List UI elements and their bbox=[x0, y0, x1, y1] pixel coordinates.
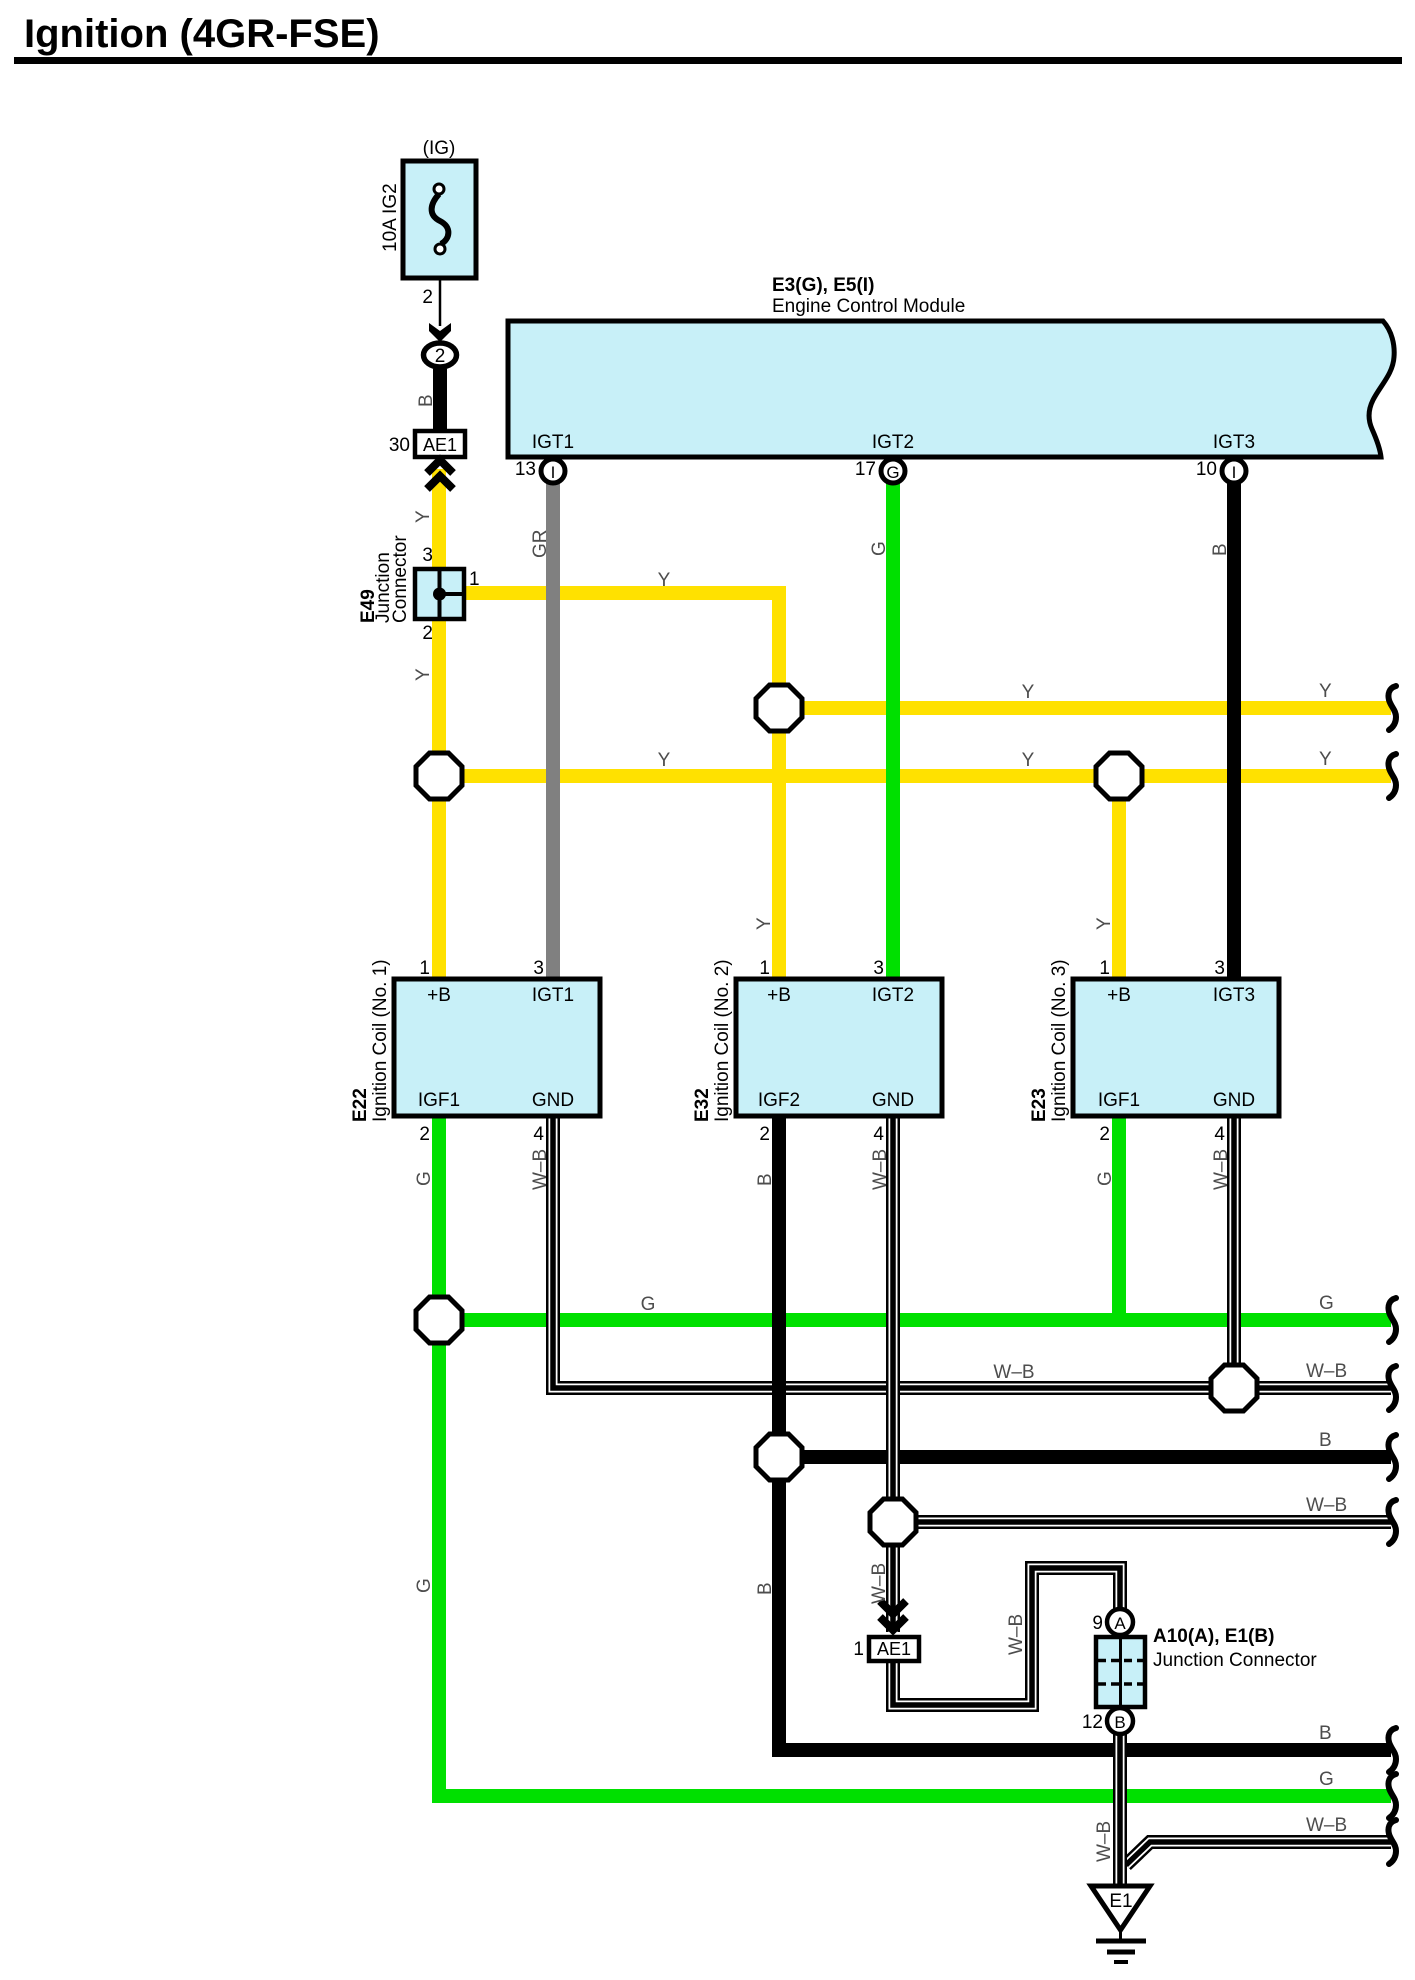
svg-text:Y: Y bbox=[413, 510, 434, 523]
svg-text:IGT2: IGT2 bbox=[872, 985, 914, 1006]
ignition coil E23 Ignition Coil (No. 3) bbox=[1073, 979, 1279, 1116]
svg-text:A10(A), E1(B): A10(A), E1(B) bbox=[1153, 1626, 1274, 1647]
wire: W-B from junction connector pin 12 B down to ground E1 bbox=[1113, 1732, 1127, 1888]
svg-text:GR: GR bbox=[530, 530, 551, 559]
svg-text:E1: E1 bbox=[1109, 1891, 1132, 1912]
svg-text:I: I bbox=[551, 463, 556, 482]
wire: B black from ECM IGT3 pin 10 down to coil No.3 IGT3 pin 3 bbox=[1227, 482, 1241, 985]
svg-text:9: 9 bbox=[1092, 1613, 1103, 1634]
connector arrow down bbox=[429, 323, 451, 342]
svg-text:Y: Y bbox=[754, 917, 775, 930]
svg-text:IGT1: IGT1 bbox=[532, 985, 574, 1006]
svg-text:12: 12 bbox=[1082, 1712, 1103, 1733]
ground E1 bbox=[1091, 1886, 1150, 1930]
svg-text:Y: Y bbox=[658, 750, 671, 771]
svg-text:A: A bbox=[1114, 1614, 1126, 1633]
wire: B black from oval to AE1 bbox=[433, 369, 447, 433]
inline connector oval 2 bbox=[424, 343, 457, 367]
junction connector A10(A), E1(B) pin 9 circle A bbox=[1107, 1609, 1133, 1635]
svg-text:Connector: Connector bbox=[390, 535, 411, 623]
wire: W-B from coil No.1 GND pin 4 down, corner, horizontal to right break bbox=[553, 1110, 1391, 1388]
svg-text:B: B bbox=[1319, 1723, 1332, 1744]
svg-text:B: B bbox=[755, 1173, 776, 1186]
svg-text:2: 2 bbox=[1099, 1124, 1110, 1145]
svg-text:Y: Y bbox=[413, 668, 434, 681]
svg-text:G: G bbox=[1319, 1293, 1334, 1314]
svg-text:2: 2 bbox=[759, 1124, 770, 1145]
svg-text:IGF1: IGF1 bbox=[418, 1090, 460, 1111]
wire: yellow Y vertical from octagon down to ignition coil No.3 +B pin 1 bbox=[1112, 776, 1126, 985]
ECM E3(G), E5(I) Engine Control Module box with torn right edge bbox=[508, 321, 1394, 457]
wire: W-B horizontal from octagon to right break bbox=[893, 1515, 1391, 1529]
svg-text:17: 17 bbox=[855, 459, 876, 480]
svg-text:IGF2: IGF2 bbox=[758, 1090, 800, 1111]
svg-text:IGT3: IGT3 bbox=[1213, 985, 1255, 1006]
junction octagon on Y wire 2 right bbox=[1096, 753, 1142, 799]
break symbol B row 2 bbox=[1388, 1728, 1396, 1772]
svg-text:3: 3 bbox=[533, 958, 544, 979]
svg-text:3: 3 bbox=[1214, 958, 1225, 979]
wire: W-B from coil No.2 GND pin 4 down to AE1 arrow bbox=[886, 1110, 900, 1632]
wire: W-B U-route from AE1 connector to junction connector pin 9 A bbox=[893, 1568, 1120, 1705]
svg-text:W–B: W–B bbox=[1306, 1815, 1347, 1836]
svg-text:W–B: W–B bbox=[1006, 1614, 1027, 1655]
svg-text:G: G bbox=[1095, 1171, 1116, 1186]
svg-text:W–B: W–B bbox=[530, 1149, 551, 1190]
svg-text:Junction Connector: Junction Connector bbox=[1153, 1650, 1317, 1671]
wire: G green from ECM IGT2 pin 17 down to coil No.2 IGT2 pin 3 bbox=[886, 482, 900, 985]
svg-text:Y: Y bbox=[658, 570, 671, 591]
break symbol Y wire 2 bbox=[1388, 754, 1396, 798]
svg-text:AE1: AE1 bbox=[423, 435, 457, 455]
svg-text:I: I bbox=[1232, 463, 1237, 482]
wire: G green from coil No.1 IGF1 pin 2 down, corner, bottom G horizontal to right break bbox=[439, 1110, 1391, 1796]
wire: GR gray from ECM IGT1 pin 13 down to coil No.1 IGT1 pin 3 bbox=[546, 482, 560, 985]
connector 30 AE1 box bbox=[415, 431, 465, 457]
svg-text:2: 2 bbox=[435, 346, 446, 367]
break symbol W-B row 1 bbox=[1388, 1366, 1396, 1410]
wire: W-B bottom horizontal from right break with diagonal merge into ground drop bbox=[1126, 1842, 1391, 1865]
svg-text:E23: E23 bbox=[1029, 1088, 1050, 1122]
svg-text:G: G bbox=[641, 1294, 656, 1315]
svg-text:2: 2 bbox=[422, 287, 433, 308]
wire: yellow Y horizontal (second) from left octagon to right break bbox=[439, 769, 1391, 783]
svg-text:Y: Y bbox=[1094, 917, 1115, 930]
wire: yellow Y vertical from AE1 chevron to ignition coil No.1 +B pin 1 bbox=[432, 469, 446, 985]
svg-text:B: B bbox=[1210, 543, 1231, 556]
junction connector E49 bbox=[415, 569, 464, 619]
svg-text:1: 1 bbox=[853, 1639, 864, 1660]
svg-text:W–B: W–B bbox=[1211, 1149, 1232, 1190]
svg-text:B: B bbox=[755, 1582, 776, 1595]
break symbol G bottom bbox=[1388, 1774, 1396, 1818]
svg-text:W–B: W–B bbox=[993, 1362, 1034, 1383]
svg-text:G: G bbox=[414, 1171, 435, 1186]
junction octagon on W-B wire row 2 bbox=[870, 1499, 916, 1545]
title underline bbox=[14, 57, 1402, 64]
junction octagon on G wire bbox=[416, 1297, 462, 1343]
svg-text:4: 4 bbox=[873, 1124, 884, 1145]
junction octagon on B wire bbox=[756, 1434, 802, 1480]
svg-text:10: 10 bbox=[1196, 459, 1217, 480]
svg-text:B: B bbox=[416, 394, 437, 407]
ignition coil E22 Ignition Coil (No. 1) bbox=[394, 979, 600, 1116]
break symbol W-B row 2 bbox=[1388, 1500, 1396, 1544]
svg-text:W–B: W–B bbox=[869, 1563, 890, 1604]
svg-text:W–B: W–B bbox=[1306, 1495, 1347, 1516]
junction connector A10(A), E1(B) body bbox=[1096, 1637, 1145, 1707]
svg-text:E22: E22 bbox=[350, 1088, 371, 1122]
break symbol Y wire 1 bbox=[1388, 686, 1396, 730]
svg-text:G: G bbox=[886, 463, 899, 482]
svg-text:2: 2 bbox=[422, 623, 433, 644]
svg-text:Y: Y bbox=[1319, 681, 1332, 702]
svg-text:Ignition Coil (No. 2): Ignition Coil (No. 2) bbox=[712, 959, 733, 1122]
svg-text:Y: Y bbox=[1022, 682, 1035, 703]
svg-text:30: 30 bbox=[389, 435, 410, 456]
svg-text:IGT1: IGT1 bbox=[532, 432, 574, 453]
wire: G green horizontal from octagon to right break bbox=[439, 1313, 1391, 1327]
junction connector pin 12 circle B bbox=[1107, 1708, 1133, 1734]
svg-text:AE1: AE1 bbox=[877, 1639, 911, 1659]
svg-text:IGT3: IGT3 bbox=[1213, 432, 1255, 453]
svg-text:GND: GND bbox=[1213, 1090, 1255, 1111]
wire: fuse pin 2 lead bbox=[439, 278, 442, 326]
ECM pin 10 circle I bbox=[1222, 459, 1246, 483]
svg-text:G: G bbox=[414, 1578, 435, 1593]
svg-text:Engine Control Module: Engine Control Module bbox=[772, 296, 965, 317]
ECM pin 13 circle I bbox=[541, 459, 565, 483]
svg-text:1: 1 bbox=[419, 958, 430, 979]
ignition coil E32 Ignition Coil (No. 2) bbox=[736, 979, 942, 1116]
svg-text:B: B bbox=[1114, 1713, 1125, 1732]
svg-text:IGT2: IGT2 bbox=[872, 432, 914, 453]
wire: B black from coil No.2 IGF2 pin 2 down, corner, bottom B horizontal to right break bbox=[779, 1110, 1391, 1750]
svg-text:4: 4 bbox=[533, 1124, 544, 1145]
svg-text:GND: GND bbox=[872, 1090, 914, 1111]
junction octagon on Y wire 1 bbox=[756, 685, 802, 731]
svg-text:2: 2 bbox=[419, 1124, 430, 1145]
break symbol B row 1 bbox=[1388, 1435, 1396, 1479]
junction octagon on Y wire 2 left bbox=[416, 753, 462, 799]
svg-text:G: G bbox=[869, 541, 890, 556]
svg-text:Ignition (4GR-FSE): Ignition (4GR-FSE) bbox=[24, 12, 380, 56]
svg-text:E32: E32 bbox=[692, 1088, 713, 1122]
svg-text:Y: Y bbox=[1022, 750, 1035, 771]
svg-text:IGF1: IGF1 bbox=[1098, 1090, 1140, 1111]
svg-text:1: 1 bbox=[1099, 958, 1110, 979]
svg-text:W–B: W–B bbox=[1306, 1361, 1347, 1382]
svg-text:W–B: W–B bbox=[870, 1149, 891, 1190]
svg-text:1: 1 bbox=[469, 569, 480, 590]
svg-text:+B: +B bbox=[1107, 985, 1131, 1006]
wire: yellow Y from junction connector E49 pin 1 right then down to ignition coil No.2 +B pin 1 bbox=[464, 593, 779, 985]
connector 1 AE1 box bbox=[869, 1637, 919, 1661]
svg-text:+B: +B bbox=[767, 985, 791, 1006]
svg-text:10A IG2: 10A IG2 bbox=[380, 183, 401, 252]
wire: yellow Y horizontal from junction octagon to right break bbox=[779, 701, 1391, 715]
ECM pin 17 circle G bbox=[881, 459, 905, 483]
wire: G green from coil No.3 IGF1 pin 2 down to G horizontal bbox=[1112, 1110, 1126, 1325]
svg-text:B: B bbox=[1319, 1430, 1332, 1451]
svg-text:3: 3 bbox=[422, 545, 433, 566]
svg-text:13: 13 bbox=[515, 459, 536, 480]
double chevron up bbox=[427, 460, 453, 473]
svg-text:G: G bbox=[1319, 1769, 1334, 1790]
break symbol W-B bottom bbox=[1388, 1820, 1396, 1864]
svg-text:Ignition Coil (No. 3): Ignition Coil (No. 3) bbox=[1049, 959, 1070, 1122]
break symbol G wire bbox=[1388, 1298, 1396, 1342]
svg-text:(IG): (IG) bbox=[423, 138, 456, 159]
junction octagon on W-B wire row 1 bbox=[1211, 1365, 1257, 1411]
wire: W-B from coil No.3 GND pin 4 down to octagon junction bbox=[1227, 1110, 1241, 1388]
svg-text:4: 4 bbox=[1214, 1124, 1225, 1145]
wire: B black horizontal from octagon to right break bbox=[779, 1450, 1391, 1464]
svg-text:GND: GND bbox=[532, 1090, 574, 1111]
svg-text:1: 1 bbox=[759, 958, 770, 979]
svg-text:3: 3 bbox=[873, 958, 884, 979]
svg-text:Ignition Coil (No. 1): Ignition Coil (No. 1) bbox=[370, 959, 391, 1122]
svg-text:+B: +B bbox=[427, 985, 451, 1006]
double chevron down to AE1 bbox=[880, 1601, 906, 1614]
svg-text:E3(G), E5(I): E3(G), E5(I) bbox=[772, 275, 874, 296]
svg-text:Y: Y bbox=[1319, 749, 1332, 770]
svg-text:W–B: W–B bbox=[1094, 1821, 1115, 1862]
